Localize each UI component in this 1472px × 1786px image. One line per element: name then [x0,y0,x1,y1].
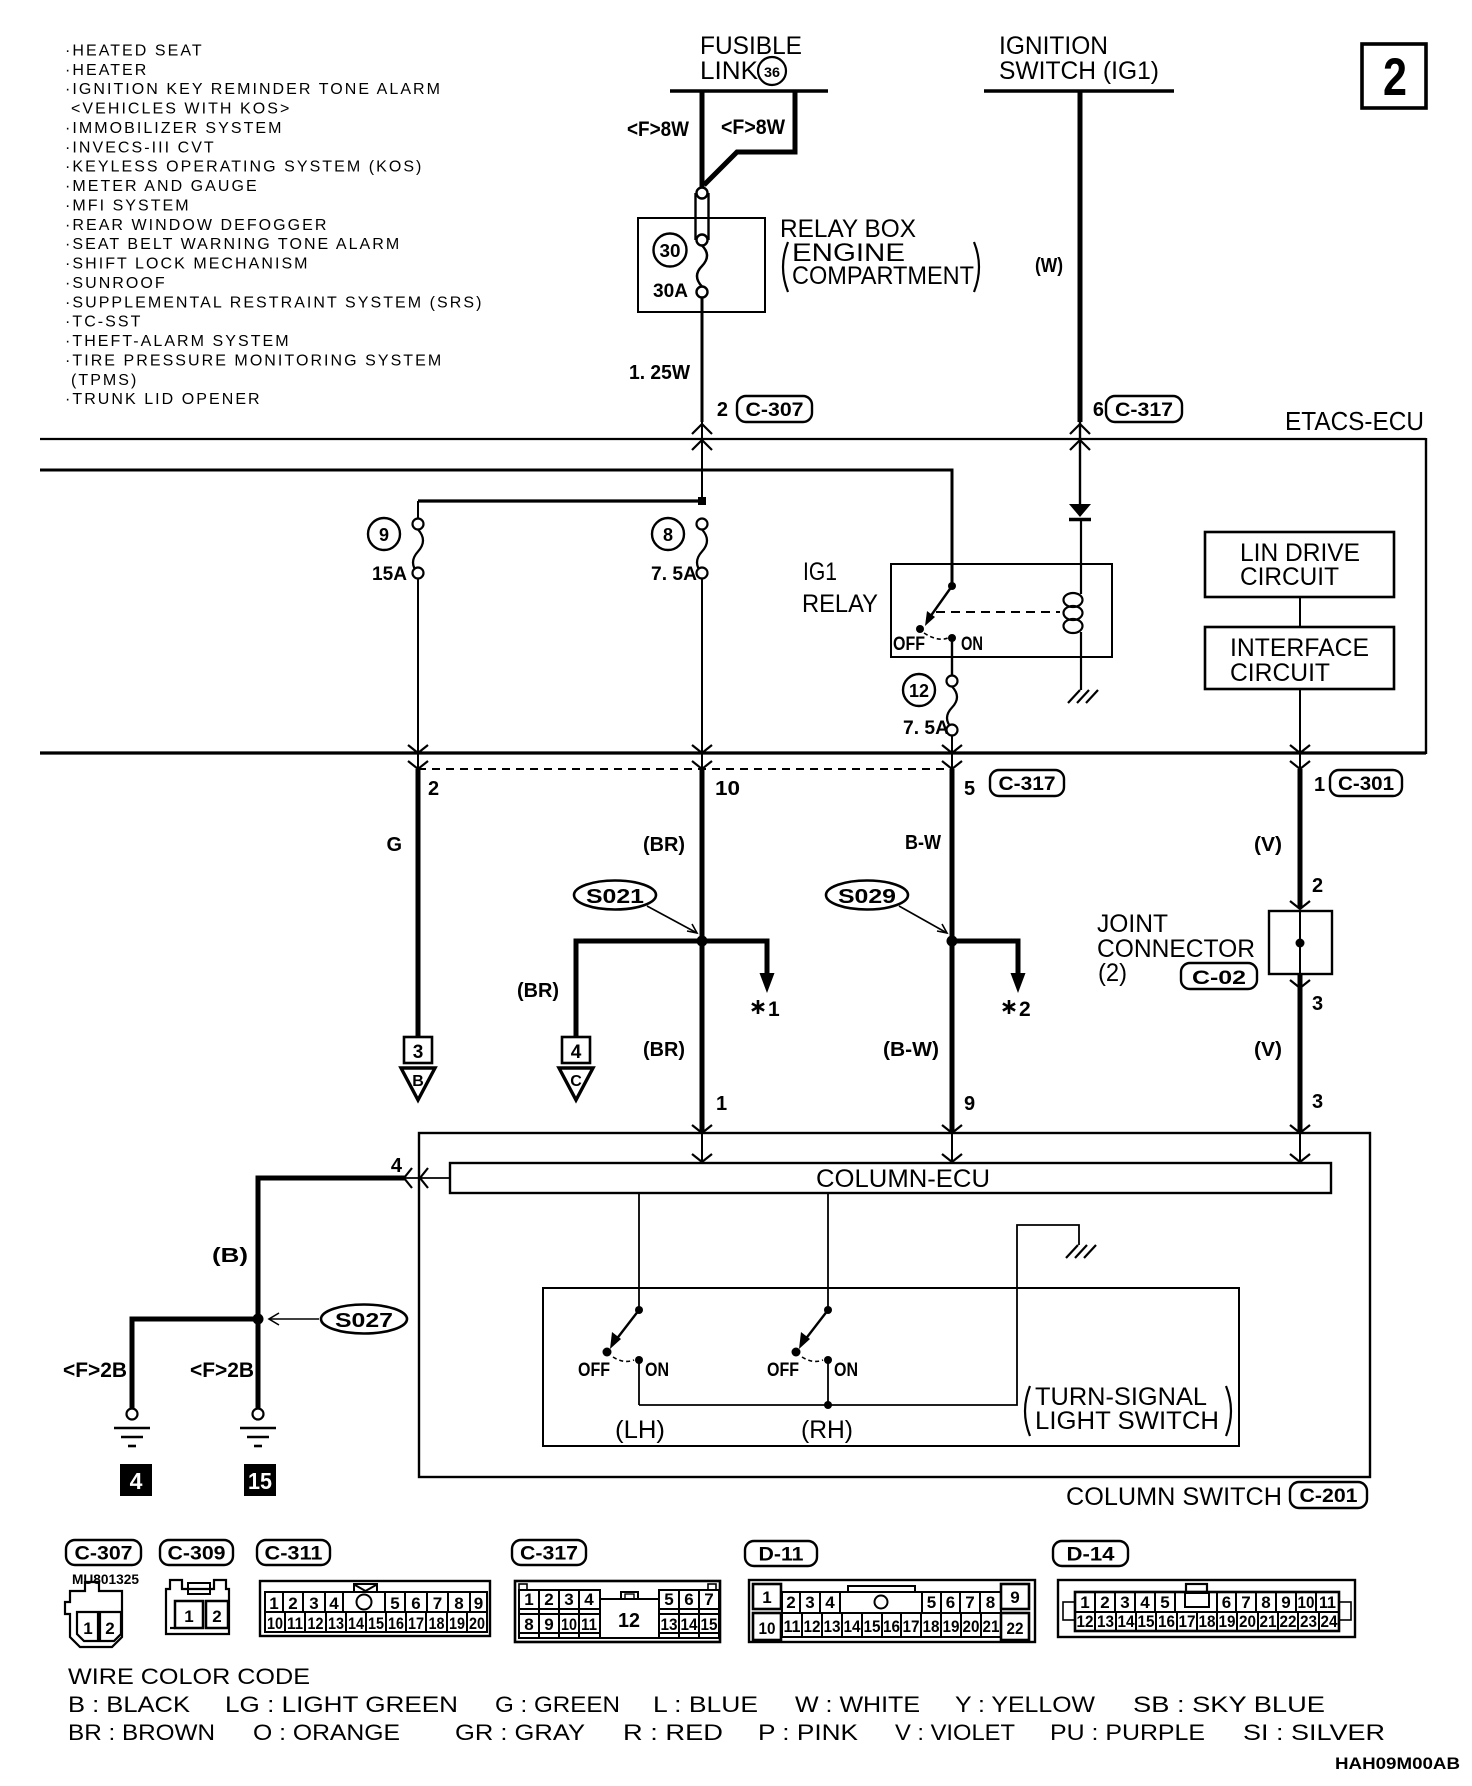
svg-text:10: 10 [561,1615,577,1634]
svg-text:(BR): (BR) [517,980,559,1002]
svg-text:19: 19 [1219,1612,1236,1631]
svg-text:9: 9 [1281,1593,1290,1612]
svg-text:36: 36 [764,64,780,80]
svg-text:G : GREEN: G : GREEN [495,1692,620,1717]
svg-text:OFF: OFF [893,634,925,655]
svg-text:3: 3 [1312,1091,1323,1113]
svg-text:2: 2 [428,778,439,800]
svg-text:·SUNROOF: ·SUNROOF [65,275,167,292]
COLUMN SWITCH outer box [419,1133,1370,1477]
svg-text:·TIRE PRESSURE MONITORING SYST: ·TIRE PRESSURE MONITORING SYSTEM [65,352,443,369]
svg-text:18: 18 [1199,1612,1216,1631]
svg-text:11: 11 [784,1617,801,1636]
chevrons ignition wire into ETACS [1070,424,1090,450]
pin 4 wire horizontal [258,1176,406,1181]
svg-text:21: 21 [1260,1612,1277,1631]
svg-text:7: 7 [1241,1593,1250,1612]
svg-text:5: 5 [1160,1593,1169,1612]
svg-text:ETACS-ECU: ETACS-ECU [1285,406,1424,436]
svg-text:4: 4 [825,1593,835,1612]
wire B down [256,1176,261,1320]
RH ON wire down [827,1360,829,1405]
svg-text:·KEYLESS OPERATING SYSTEM (KOS: ·KEYLESS OPERATING SYSTEM (KOS) [65,159,423,176]
svg-text:(2): (2) [1098,959,1127,987]
svg-text:23: 23 [1300,1612,1317,1631]
svg-text:<F>8W: <F>8W [721,116,785,139]
wire LIN to INTERFACE [1299,597,1301,627]
svg-text:C-201: C-201 [1300,1486,1358,1507]
chevrons pin 4 [404,1168,428,1188]
svg-text:PU : PURPLE: PU : PURPLE [1050,1720,1205,1745]
svg-text:12: 12 [1077,1612,1094,1631]
svg-text:D-11: D-11 [759,1545,804,1566]
svg-text:5: 5 [964,778,975,800]
svg-text:8: 8 [986,1593,995,1612]
svg-text:B: B [412,1073,424,1090]
svg-text:ON: ON [961,634,983,655]
RH dashed throw arc [802,1357,823,1361]
TURN-SIGNAL LIGHT SWITCH label [1025,1383,1231,1436]
chevron into joint connector [1290,901,1310,909]
svg-text:·METER AND GAUGE: ·METER AND GAUGE [65,178,259,195]
turn-signal light switch box [543,1288,1239,1446]
svg-text:CIRCUIT: CIRCUIT [1230,659,1330,687]
svg-text:6: 6 [1222,1593,1231,1612]
svg-text:1: 1 [83,1619,92,1638]
svg-text:LINK: LINK [700,57,758,85]
svg-text:C-317: C-317 [999,774,1056,795]
svg-text:LIGHT SWITCH: LIGHT SWITCH [1035,1407,1219,1435]
svg-text:C-309: C-309 [168,1544,226,1565]
wire: fusible link left drop [700,91,705,188]
svg-text:Y : YELLOW: Y : YELLOW [955,1692,1095,1717]
LH ON wire down [638,1360,640,1405]
body ground right [240,1409,276,1447]
svg-text:(RH): (RH) [801,1416,853,1444]
svg-text:4: 4 [391,1155,403,1177]
svg-text:GR : GRAY: GR : GRAY [455,1720,585,1745]
svg-text:C-317: C-317 [520,1544,578,1565]
connector label C-317 [1106,396,1182,422]
svg-text:30: 30 [660,241,681,261]
ground branch horizontal [132,1317,258,1322]
svg-text:WIRE COLOR CODE: WIRE COLOR CODE [68,1664,310,1689]
branch arrow *2 [1011,939,1026,994]
wire B-W [950,769,955,1133]
svg-text:C-02: C-02 [1192,968,1246,989]
svg-text:1: 1 [1080,1593,1089,1612]
circled 36 [758,57,786,85]
svg-text:S027: S027 [335,1310,393,1332]
diode [1069,504,1091,520]
svg-text:14: 14 [1118,1612,1135,1631]
svg-text:ON: ON [645,1360,669,1381]
splice S021 [574,881,656,910]
fuse 8 symbol [697,519,708,579]
COLUMN-ECU bar [450,1163,1331,1193]
svg-text:C-317: C-317 [1115,400,1173,421]
svg-text:16: 16 [1158,1612,1175,1631]
svg-text:10: 10 [759,1619,776,1638]
junction: fuse bus tap [698,497,706,505]
ignition switch label [999,32,1159,85]
svg-text:S021: S021 [586,886,644,908]
fuse 9 circled number [368,518,400,550]
fuse 12 symbol [947,676,958,736]
svg-text:4: 4 [571,1042,582,1063]
svg-text:19: 19 [943,1617,960,1636]
svg-text:BR : BROWN: BR : BROWN [68,1720,215,1745]
svg-text:JOINT: JOINT [1097,910,1168,938]
svg-text:7. 5A: 7. 5A [903,718,949,739]
wire relay ON to fuse 12 [951,638,953,676]
connector D-14 drawing [1053,1541,1128,1566]
connector label C-301 [1330,770,1402,796]
svg-text:18: 18 [429,1614,445,1633]
connector label C-317 mid [990,770,1064,796]
svg-text:<F>2B: <F>2B [63,1359,127,1382]
svg-text:22: 22 [1007,1619,1024,1638]
svg-text:FUSIBLE: FUSIBLE [700,32,802,60]
svg-text:16: 16 [388,1614,404,1633]
relay box label [780,215,979,292]
svg-text:15: 15 [701,1615,718,1634]
junction dot RH ground [824,1401,832,1409]
svg-text:15: 15 [864,1617,881,1636]
svg-text:8: 8 [524,1615,533,1634]
svg-text:(TPMS): (TPMS) [71,372,138,389]
svg-text:13: 13 [1097,1612,1114,1631]
connector D-11 drawing [745,1541,817,1566]
wire color code line 1 [68,1692,1325,1717]
svg-text:7: 7 [965,1593,974,1612]
svg-text:12: 12 [909,681,929,701]
sheet number box 2 [1362,44,1426,108]
svg-text:R : RED: R : RED [623,1720,723,1745]
RH switch wire [827,1193,829,1310]
joint connector box [1269,911,1332,974]
svg-text:19: 19 [449,1614,465,1633]
svg-text:20: 20 [469,1614,485,1633]
svg-text:7: 7 [704,1590,713,1609]
ground branch left drop [130,1317,135,1410]
svg-text:3: 3 [309,1594,318,1613]
svg-text:B : BLACK: B : BLACK [68,1692,190,1717]
connector C-311 drawing [260,1581,490,1636]
svg-text:15: 15 [1138,1612,1155,1631]
svg-text:1: 1 [269,1594,278,1613]
svg-text:C-307: C-307 [746,400,804,421]
connector C-307 drawing [65,1582,122,1647]
RH ON contact [824,1356,832,1364]
relay dashed throw arc [924,633,948,639]
connector label C-02 [1181,963,1257,989]
svg-text:2: 2 [288,1594,297,1613]
svg-text:·REAR WINDOW DEFOGGER: ·REAR WINDOW DEFOGGER [65,217,329,234]
fusible link label [700,32,802,85]
wire V upper [1298,769,1303,908]
svg-text:P : PINK: P : PINK [758,1720,858,1745]
takeout triangle B [401,1068,435,1100]
svg-text:·SHIFT LOCK MECHANISM: ·SHIFT LOCK MECHANISM [65,256,310,273]
S021 pointer arrow [647,906,697,933]
svg-text:10: 10 [1298,1593,1315,1612]
svg-text:14: 14 [844,1617,861,1636]
joint connector internal wire [1299,911,1301,974]
LH switch pivot [635,1306,643,1314]
ground ref tag 15 [244,1464,276,1496]
svg-text:(B): (B) [212,1245,248,1267]
wire INTERFACE to pin 1 [1299,689,1301,769]
svg-text:17: 17 [903,1617,920,1636]
LIN DRIVE CIRCUIT box [1205,532,1394,597]
S027 pointer arrow [269,1313,319,1325]
svg-text:(V): (V) [1254,834,1282,856]
svg-text:3: 3 [564,1590,573,1609]
svg-text:2: 2 [1100,1593,1109,1612]
svg-text:8: 8 [663,525,673,545]
svg-text:(B-W): (B-W) [883,1039,939,1061]
label *2 [1003,1000,1015,1014]
IG1 relay box [891,564,1112,657]
svg-text:(W): (W) [1035,255,1063,277]
svg-text:·MFI SYSTEM: ·MFI SYSTEM [65,198,191,215]
branch arrow *1 [760,939,775,994]
switch common ground trace [639,1225,1079,1405]
connector label C-307 [737,396,812,422]
svg-text:4: 4 [1140,1593,1150,1612]
fuse 8 circled number [652,518,684,550]
svg-text:4: 4 [584,1590,594,1609]
svg-text:1: 1 [1314,774,1325,796]
svg-text:1. 25W: 1. 25W [629,362,690,384]
ground branch right drop [256,1319,261,1409]
INTERFACE CIRCUIT box [1205,627,1394,689]
svg-text:6: 6 [1093,399,1104,421]
svg-text:W : WHITE: W : WHITE [795,1692,920,1717]
chevrons at COLUMN-ECU entries [692,1125,1310,1162]
svg-text:10: 10 [267,1614,283,1633]
svg-text:4: 4 [329,1594,339,1613]
svg-text:11: 11 [581,1615,597,1634]
svg-text:O : ORANGE: O : ORANGE [253,1720,400,1745]
svg-text:2: 2 [1312,875,1323,897]
svg-text:12: 12 [804,1617,821,1636]
svg-text:COLUMN SWITCH: COLUMN SWITCH [1066,1483,1282,1511]
ETACS-ECU box (open left) [40,438,1426,754]
svg-text:9: 9 [1010,1588,1019,1607]
svg-text:18: 18 [923,1617,940,1636]
LH switch wire [638,1193,640,1310]
system application list [65,43,483,409]
label *1 [752,1000,764,1014]
RH switch arm [792,1310,829,1357]
svg-text:6: 6 [411,1594,420,1613]
svg-text:IG1: IG1 [803,558,837,586]
column switch ground [1066,1245,1096,1258]
relay common pivot [948,582,956,590]
wire fuse 12 to pin 5 [951,736,953,770]
thin ignition wire inside ETACS [1079,422,1081,504]
svg-text:1: 1 [184,1607,193,1626]
svg-text:·SEAT BELT WARNING TONE ALARM: ·SEAT BELT WARNING TONE ALARM [65,236,401,253]
svg-text:15: 15 [368,1614,384,1633]
svg-text:·THEFT-ALARM SYSTEM: ·THEFT-ALARM SYSTEM [65,333,291,350]
splice S027 [321,1305,407,1334]
svg-text:13: 13 [328,1614,344,1633]
svg-text:6: 6 [946,1593,955,1612]
svg-text:16: 16 [883,1617,900,1636]
relay OFF contact [916,625,924,633]
S029 pointer arrow [899,906,947,933]
svg-text:SI : SILVER: SI : SILVER [1243,1720,1385,1745]
svg-text:·SUPPLEMENTAL RESTRAINT SYSTEM: ·SUPPLEMENTAL RESTRAINT SYSTEM (SRS) [65,294,483,311]
svg-text:14: 14 [348,1614,364,1633]
svg-text:9: 9 [544,1615,553,1634]
svg-text:RELAY: RELAY [802,590,878,618]
svg-text:15A: 15A [372,564,407,585]
svg-text:2: 2 [786,1593,795,1612]
svg-text:(LH): (LH) [615,1416,665,1444]
svg-text:IGNITION: IGNITION [999,32,1108,60]
fuse 9 symbol [413,519,424,579]
wire G [416,769,421,1037]
svg-text:30A: 30A [653,281,688,302]
svg-text:9: 9 [964,1093,975,1115]
svg-text:INTERFACE: INTERFACE [1230,634,1369,662]
svg-text:14: 14 [681,1615,698,1634]
chevrons fusible wire into ETACS [692,424,712,450]
svg-text:·HEATED SEAT: ·HEATED SEAT [65,43,204,60]
svg-text:(BR): (BR) [643,1039,685,1061]
svg-text:3: 3 [805,1593,814,1612]
wire to fuse 9 [418,499,702,502]
svg-text:11: 11 [1319,1593,1336,1612]
branch BR horizontal [576,939,767,944]
svg-text:13: 13 [824,1617,841,1636]
coil ground [1068,690,1098,703]
svg-text:COLUMN-ECU: COLUMN-ECU [816,1165,990,1193]
fuse 12 circled number [903,674,935,706]
svg-text:2: 2 [1383,48,1407,107]
fusible link symbol [696,188,709,298]
svg-text:2: 2 [717,399,728,421]
svg-text:·HEATER: ·HEATER [65,62,148,79]
relay actuation dashed link [936,611,1060,613]
fusible link bus bar [670,89,828,93]
connector label C-311 bottom [257,1540,330,1565]
svg-text:7: 7 [433,1594,442,1613]
svg-text:1: 1 [524,1590,533,1609]
svg-text:SWITCH (IG1): SWITCH (IG1) [999,57,1159,85]
svg-text:2: 2 [1019,998,1031,1021]
RH switch pivot [824,1306,832,1314]
wire V lower [1298,974,1303,1133]
svg-text:V : VIOLET: V : VIOLET [895,1720,1015,1745]
LH ON contact [635,1356,643,1364]
connector C-309 drawing [166,1580,229,1634]
svg-text:11: 11 [287,1614,303,1633]
svg-text:·INVECS-III CVT: ·INVECS-III CVT [65,139,216,156]
svg-text:15: 15 [248,1468,272,1494]
svg-text:L : BLUE: L : BLUE [653,1692,758,1717]
svg-text:C-307: C-307 [75,1544,133,1565]
splice S029 [826,881,908,910]
svg-text:1: 1 [716,1093,727,1115]
svg-text:SB : SKY BLUE: SB : SKY BLUE [1133,1692,1325,1717]
svg-text:12: 12 [308,1614,324,1633]
svg-text:9: 9 [474,1594,483,1613]
chevron out of joint connector [1290,980,1310,988]
svg-text:CIRCUIT: CIRCUIT [1240,563,1339,591]
svg-text:1: 1 [762,1588,771,1607]
branch BR left drop [574,939,579,1038]
connector label C-309 bottom [160,1540,233,1565]
joint connector dot [1296,939,1305,948]
ignition bus bar [984,89,1174,93]
svg-text:<F>8W: <F>8W [627,118,689,141]
thin wire through ETACS top [701,422,703,501]
junction dot S021 [697,936,708,947]
svg-text:·TRUNK LID OPENER: ·TRUNK LID OPENER [65,391,262,408]
svg-text:20: 20 [963,1617,980,1636]
svg-text:·IGNITION KEY REMINDER TONE AL: ·IGNITION KEY REMINDER TONE ALARM [65,81,442,98]
svg-text:5: 5 [927,1593,936,1612]
svg-text:<F>2B: <F>2B [190,1359,254,1382]
svg-text:24: 24 [1321,1612,1338,1631]
svg-text:8: 8 [454,1594,463,1613]
relay ON contact [948,634,956,642]
svg-text:3: 3 [1312,993,1323,1015]
wire fuse 9 to pin 2 [417,579,419,770]
fuse 30 circled number [654,234,687,267]
svg-text:C-301: C-301 [1338,774,1394,795]
svg-text:D-14: D-14 [1067,1545,1115,1566]
svg-text:2: 2 [212,1607,221,1626]
svg-text:HAH09M00AB: HAH09M00AB [1335,1754,1460,1773]
svg-text:10: 10 [715,778,740,800]
body ground left [114,1409,150,1447]
wire BR [700,769,705,1133]
svg-text:·IMMOBILIZER SYSTEM: ·IMMOBILIZER SYSTEM [65,120,284,137]
svg-text:8: 8 [1261,1593,1270,1612]
wire: ignition IG1 feed [1078,91,1083,422]
svg-text:17: 17 [1179,1612,1196,1631]
svg-text:21: 21 [983,1617,1000,1636]
svg-text:OFF: OFF [578,1360,610,1381]
wire color code line 2 [68,1720,1385,1745]
svg-text:(BR): (BR) [643,834,685,856]
svg-text:17: 17 [408,1614,424,1633]
relay arm [930,586,952,617]
takeout box 4 [562,1037,590,1063]
connector C-317 drawing [512,1540,586,1565]
relay box (engine compartment) outline [638,218,765,312]
svg-text:·TC-SST: ·TC-SST [65,314,142,331]
svg-text:OFF: OFF [767,1360,799,1381]
svg-text:B-W: B-W [905,832,941,854]
svg-text:S029: S029 [838,886,896,908]
svg-text:G: G [386,834,402,856]
svg-text:COMPARTMENT: COMPARTMENT [792,262,974,290]
junction dot S027 [253,1314,264,1325]
svg-text:12: 12 [618,1610,640,1632]
IG1 RELAY label [802,558,878,618]
svg-text:ON: ON [834,1360,858,1381]
svg-text:1: 1 [768,998,780,1021]
svg-text:3: 3 [1120,1593,1129,1612]
ground ref tag 4 [120,1464,152,1496]
